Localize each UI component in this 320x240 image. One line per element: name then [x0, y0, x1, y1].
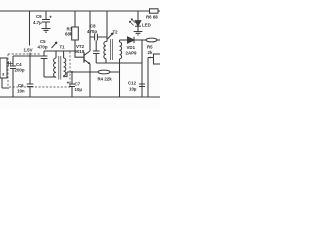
- ground (below LED): [134, 32, 143, 36]
- transformer T2: [104, 11, 122, 97]
- wire node A (tank top, left segment): [13, 55, 41, 57]
- resistor R6 (in rail): [150, 9, 159, 13]
- svg-text:10µ: 10µ: [129, 87, 137, 92]
- svg-text:C6: C6: [18, 83, 24, 88]
- svg-text:2k: 2k: [148, 50, 153, 55]
- T1 adjustable core arrow: [52, 42, 58, 48]
- capacitor C8: [90, 34, 107, 41]
- capacitor C6: [27, 53, 34, 98]
- svg-text:3: 3: [2, 72, 5, 77]
- svg-text:T2: T2: [113, 30, 119, 35]
- capacitor C12: [139, 84, 145, 87]
- earphone box (right edge): [154, 54, 161, 64]
- transistor VT2: [84, 51, 90, 64]
- junction dot C7 tap: [71, 71, 73, 73]
- wire lower lead of box: [2, 78, 9, 88]
- diode VD1: [120, 37, 147, 43]
- capacitor C5: [41, 51, 48, 77]
- junction dot emitter: [89, 71, 91, 73]
- ground (below C9): [42, 29, 51, 33]
- resistor R4: [98, 70, 110, 74]
- capacitor (coupling, below C8): [93, 40, 100, 63]
- svg-text:470p: 470p: [38, 45, 48, 50]
- svg-text:T1: T1: [60, 45, 66, 50]
- svg-text:C12: C12: [128, 81, 137, 86]
- wire T2 primary bottom to C12 column: [96, 62, 142, 64]
- svg-text:10n: 10n: [17, 89, 25, 94]
- dashed shield box: [8, 52, 70, 88]
- capacitor C4: [10, 56, 16, 97]
- wire emitter down: [89, 64, 91, 97]
- svg-text:LED: LED: [142, 23, 151, 28]
- svg-text:C4: C4: [16, 62, 22, 67]
- svg-text:200p: 200p: [15, 68, 25, 73]
- svg-text:C5: C5: [40, 39, 46, 44]
- capacitor C9: [42, 11, 52, 29]
- svg-text:2AP9: 2AP9: [126, 51, 138, 56]
- svg-text:68k: 68k: [65, 32, 73, 37]
- svg-text:R4 22k: R4 22k: [98, 77, 113, 82]
- svg-text:R6 68: R6 68: [146, 15, 158, 20]
- svg-text:1.5V: 1.5V: [24, 48, 33, 53]
- svg-text:VD1: VD1: [127, 45, 136, 50]
- transformer T1: [54, 51, 67, 80]
- wire stub from antenna box: [7, 61, 13, 66]
- svg-text:10µ: 10µ: [75, 87, 83, 92]
- svg-text:C7: C7: [75, 82, 81, 87]
- wire emitter node / R4 row: [67, 71, 120, 73]
- svg-text:4.7µ: 4.7µ: [33, 20, 42, 25]
- LED: [129, 11, 141, 32]
- svg-text:C9: C9: [36, 14, 42, 19]
- resistor R5: [146, 38, 157, 42]
- wire bottom ground bus: [0, 96, 160, 98]
- svg-text:470p: 470p: [87, 29, 97, 34]
- antenna coil box L3: [0, 58, 7, 78]
- resistor R3: [72, 11, 79, 51]
- svg-text:9018: 9018: [75, 49, 85, 54]
- svg-text:C8: C8: [90, 24, 96, 29]
- wire collector to rail: [89, 11, 91, 51]
- T2 adjustable core arrow: [108, 33, 114, 39]
- capacitor C7: [67, 72, 75, 97]
- wire tank bottom: [44, 76, 56, 78]
- wire detector output column: [141, 40, 143, 97]
- svg-text:R5: R5: [147, 45, 153, 50]
- wire base feed VT2: [75, 51, 84, 57]
- wire to earphone: [148, 58, 154, 98]
- wire top supply rail: [0, 10, 160, 12]
- wire node A (right segment to base bias): [44, 50, 75, 52]
- wire 1.5V supply feed: [29, 11, 31, 46]
